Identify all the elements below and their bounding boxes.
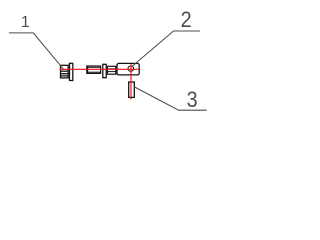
bolt head (item 1 hex head) [61, 65, 69, 78]
leader line 2 [132, 31, 200, 67]
washer 2 [103, 64, 106, 77]
washer at bolt head [70, 63, 73, 80]
leader line 1 [9, 33, 64, 70]
svg-text:3: 3 [187, 88, 198, 112]
leader line 3 [134, 87, 206, 110]
svg-text:1: 1 [21, 14, 30, 31]
nut (hex nut side view) [107, 66, 115, 74]
block (item 2 body with hole) [117, 63, 139, 75]
label 2 [181, 8, 192, 32]
label 3 [187, 88, 198, 112]
centerline (red vertical through hole and pin) [130, 64, 132, 99]
threaded stud [87, 66, 101, 73]
hole circle (black) [128, 66, 134, 72]
svg-text:2: 2 [181, 8, 192, 32]
pin (item 3) [129, 82, 135, 97]
centerline (red horizontal axis) [60, 68, 141, 70]
